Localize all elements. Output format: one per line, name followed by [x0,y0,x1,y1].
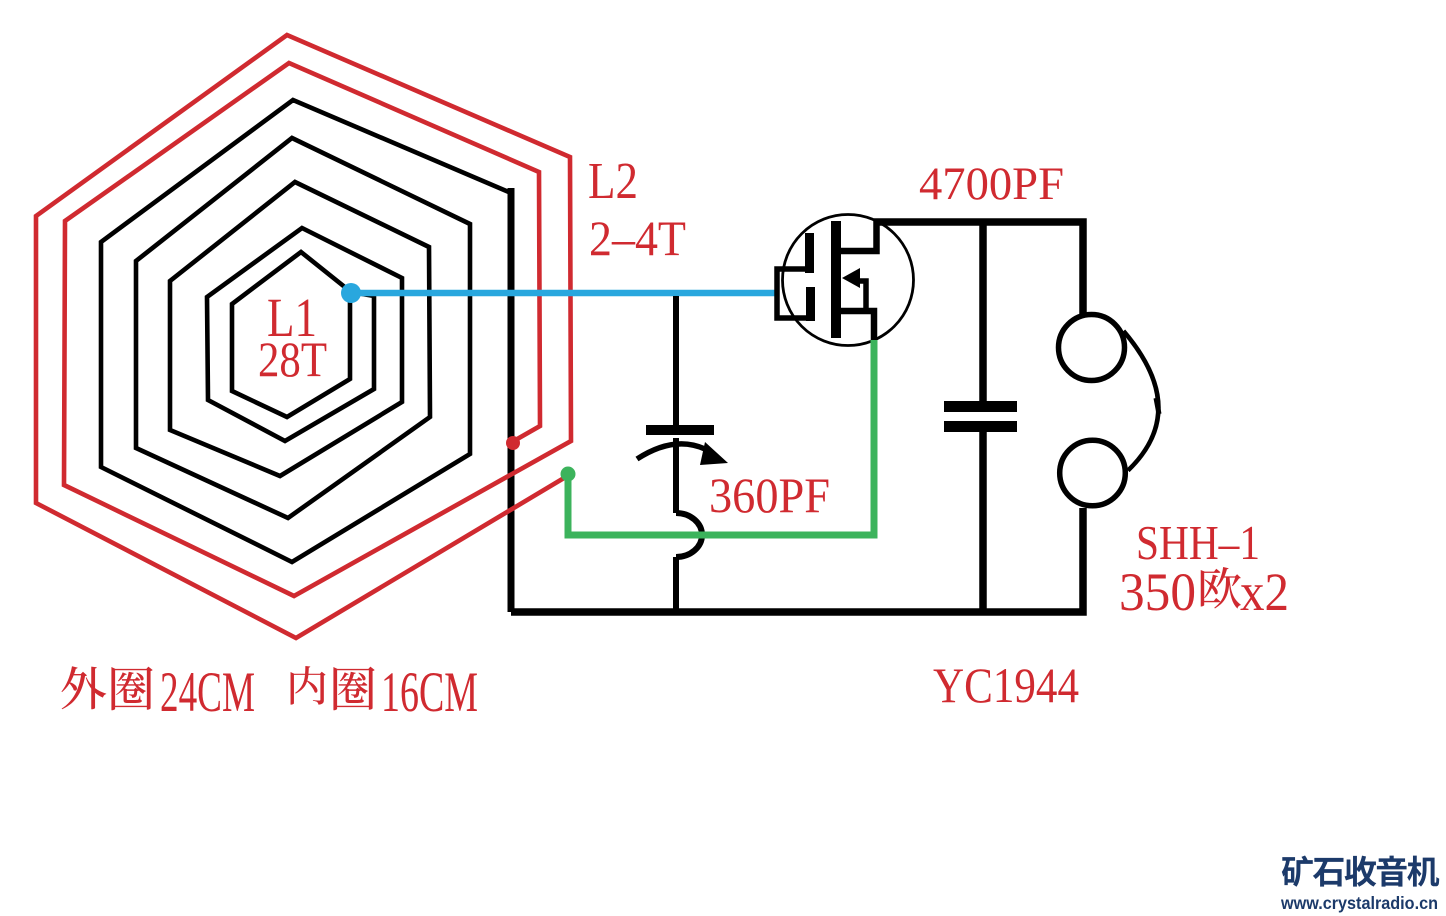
svg-text:YC1944: YC1944 [933,657,1079,713]
wire hop: black wire jumps over green wire [676,513,702,557]
watermark: crystalradio.cn logo [1282,856,1313,887]
transistor Q1 drain lead [841,220,877,251]
svg-text:24CM: 24CM [160,661,255,724]
wire: bottom rail [511,508,1083,612]
variable capacitor C1 curved plate with arrow [637,444,705,459]
wire: below variable capacitor [673,438,679,513]
transistor Q1 MOSFET (YC1944 set) circle [783,215,914,346]
label: outer loop 24CM inner loop 16CM [61,666,106,709]
node: blue dot tap (L1 inner end) [341,283,361,303]
svg-text:L2: L2 [588,153,638,210]
capacitor C2 4700PF plates [944,401,1017,412]
svg-text:2–4T: 2–4T [589,210,686,266]
variable capacitor C1 360PF top plate [646,425,714,435]
headphones SHH-1 upper earpiece [1059,315,1125,381]
transistor Q1 gate electrode upper bar [805,233,814,273]
svg-text:360PF: 360PF [709,467,830,523]
transistor Q1 source lead [841,311,874,341]
wire: blue wire from L1 tap to gate [351,290,777,297]
node: red dot junction (L2 inner end joins ground rail) [506,436,520,450]
svg-text:x2: x2 [1240,562,1289,622]
transistor Q1 body arrow [842,268,860,288]
node: green dot (L2 outer end tap) [561,467,576,482]
inductor L2 red 2-turn spiral (inner end at red dot, outer end at green dot) [36,35,571,638]
wire: L1 outer end down to bottom rail [508,188,515,612]
svg-text:28T: 28T [258,331,327,387]
capacitor C2 4700PF leads [979,222,987,401]
svg-text:16CM: 16CM [381,661,478,724]
wire: green wire from source to L2 tap [568,340,874,535]
wire: branch from gate line down to variable capacitor [673,296,679,425]
transistor Q1 channel bar [831,221,841,338]
svg-text:350: 350 [1119,562,1196,622]
transistor Q1 gate bracket [777,269,815,318]
wire: top rail (drain to phones) [874,222,1083,314]
svg-text:4700PF: 4700PF [919,158,1064,210]
transistor Q1 gate electrode lower bar [806,287,815,321]
svg-text:www.crystalradio.cn: www.crystalradio.cn [1280,893,1438,913]
headphones SHH-1 lower earpiece [1060,440,1126,506]
headphones SHH-1 headband arc [1124,331,1159,471]
inductor L1 28T black hexagonal spiral coil [101,100,511,562]
